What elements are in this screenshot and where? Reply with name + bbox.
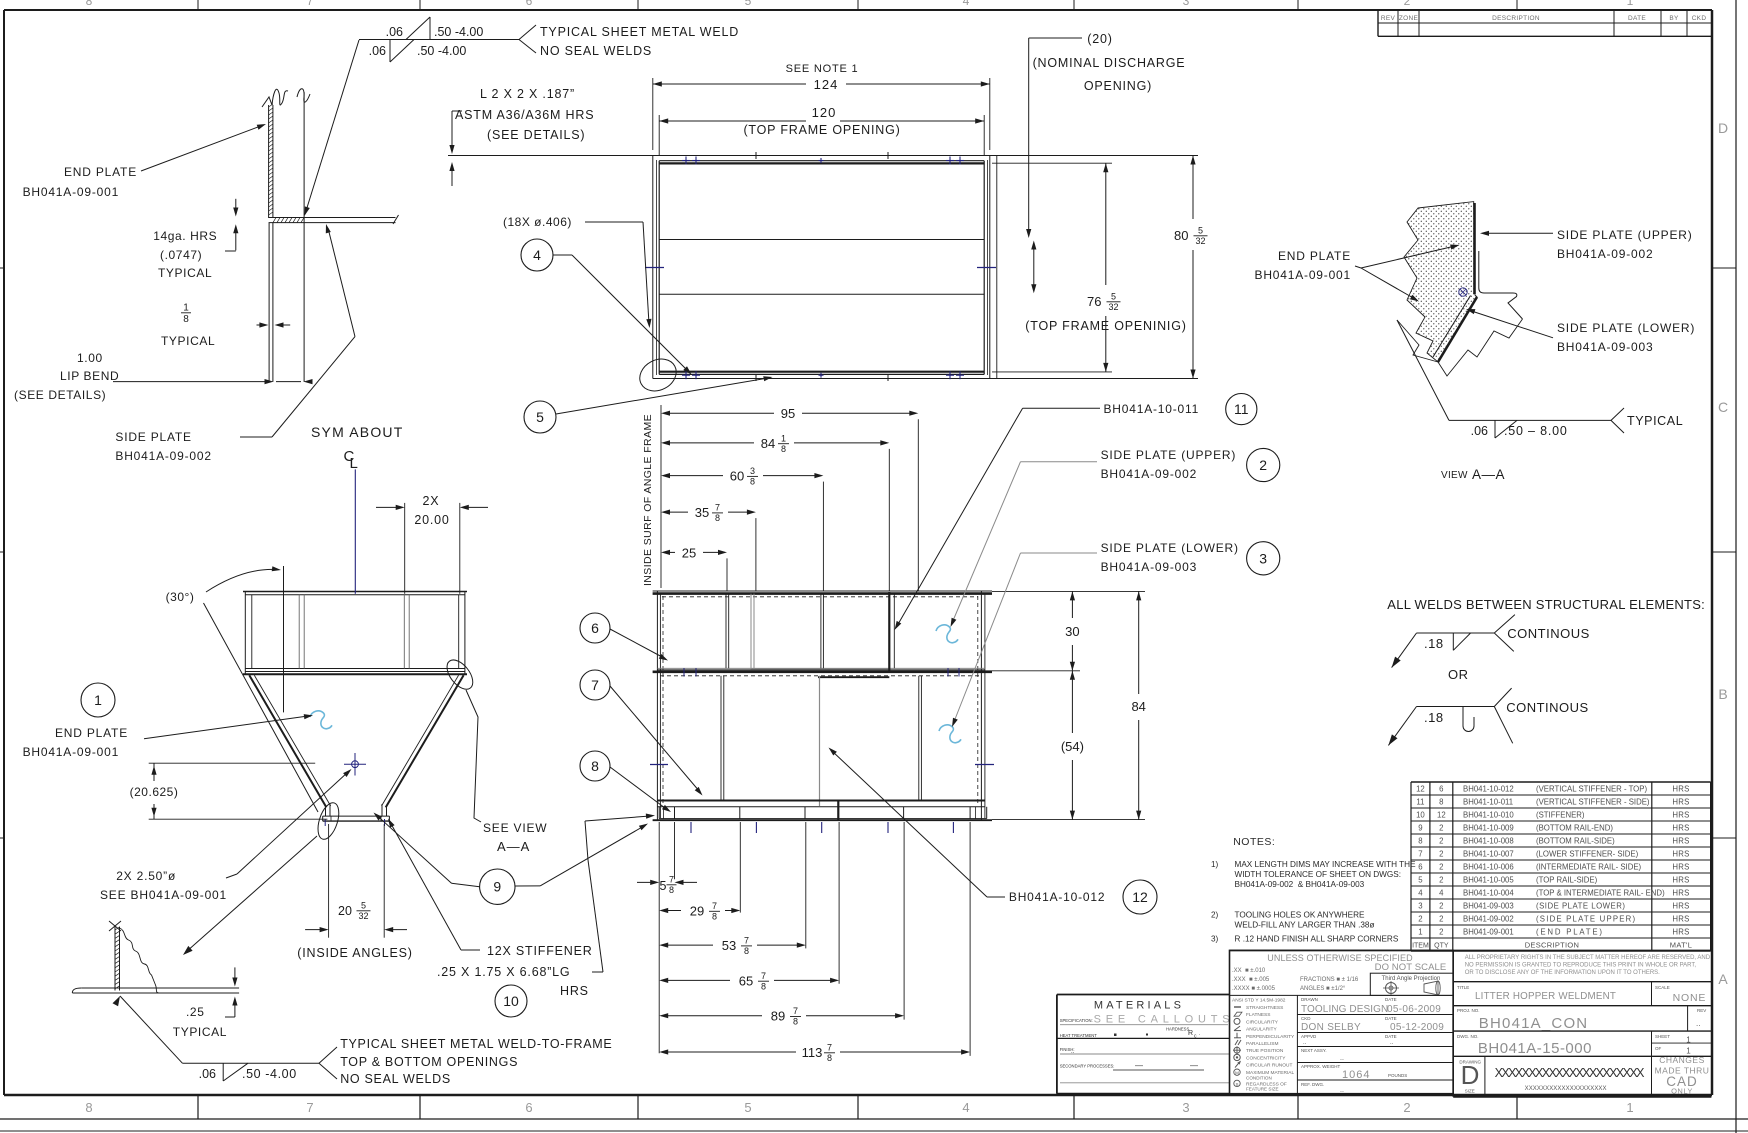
svg-text:ANGULARITY: ANGULARITY bbox=[1246, 1027, 1277, 1033]
svg-text:HARDNESS: HARDNESS bbox=[1166, 1027, 1189, 1032]
svg-text:CONCENTRICITY: CONCENTRICITY bbox=[1246, 1055, 1286, 1061]
svg-text:BH041-10-009: BH041-10-009 bbox=[1463, 824, 1514, 833]
svg-text:HRS: HRS bbox=[1672, 798, 1689, 807]
svg-text:TOOLING HOLES OK ANYWHERE: TOOLING HOLES OK ANYWHERE bbox=[1235, 911, 1366, 920]
svg-text:FEATURE SIZE: FEATURE SIZE bbox=[1246, 1087, 1279, 1092]
svg-text:8: 8 bbox=[1439, 798, 1443, 807]
svg-text:BH041A-10-012: BH041A-10-012 bbox=[1009, 890, 1105, 904]
svg-text:VIEW: VIEW bbox=[1441, 470, 1468, 481]
svg-text:M: M bbox=[1235, 1071, 1239, 1076]
svg-text:BH041-09-003: BH041-09-003 bbox=[1463, 902, 1514, 911]
svg-text:8: 8 bbox=[715, 513, 720, 523]
svg-text:FRACTIONS ■ ± 1/16: FRACTIONS ■ ± 1/16 bbox=[1300, 977, 1359, 983]
svg-text:(30°): (30°) bbox=[166, 590, 195, 604]
svg-text:BH041A-09-001: BH041A-09-001 bbox=[23, 745, 119, 759]
svg-text:5: 5 bbox=[1111, 292, 1116, 302]
svg-text:DON SELBY: DON SELBY bbox=[1301, 1022, 1361, 1033]
svg-text:L: L bbox=[350, 455, 358, 472]
svg-text:3: 3 bbox=[1259, 550, 1267, 566]
svg-text:1): 1) bbox=[1211, 860, 1219, 869]
svg-text:ANGLES ■ ±1/2°: ANGLES ■ ±1/2° bbox=[1300, 986, 1346, 992]
svg-text:8: 8 bbox=[827, 1053, 832, 1063]
svg-text:QTY: QTY bbox=[1434, 943, 1449, 950]
svg-text:..: .. bbox=[1340, 1087, 1344, 1094]
svg-text:5: 5 bbox=[744, 1100, 751, 1115]
svg-text:NEXT ASSY.: NEXT ASSY. bbox=[1301, 1048, 1327, 1053]
svg-text:BH041A-09-003: BH041A-09-003 bbox=[1557, 340, 1653, 354]
svg-text:84: 84 bbox=[761, 436, 775, 451]
svg-text:WIDTH TOLERANCE OF SHEET ON DW: WIDTH TOLERANCE OF SHEET ON DWGS: bbox=[1235, 870, 1402, 879]
svg-text:OPENING): OPENING) bbox=[1084, 79, 1152, 93]
svg-text:CIRCULAR RUNOUT: CIRCULAR RUNOUT bbox=[1246, 1063, 1292, 1069]
svg-text:(BOTTOM RAIL-SIDE): (BOTTOM RAIL-SIDE) bbox=[1536, 837, 1615, 846]
svg-text:(TOP FRAME OPENINIG): (TOP FRAME OPENINIG) bbox=[1025, 319, 1186, 333]
svg-text:HRS: HRS bbox=[560, 984, 589, 998]
svg-text:BH041A-09-002 & BH041A-09-003: BH041A-09-002 & BH041A-09-003 bbox=[1235, 880, 1365, 889]
svg-text:(TOP RAIL-SIDE): (TOP RAIL-SIDE) bbox=[1536, 876, 1598, 885]
svg-text:05-06-2009: 05-06-2009 bbox=[1387, 1004, 1441, 1015]
svg-text:..: .. bbox=[1303, 1040, 1307, 1046]
svg-text:DATE: DATE bbox=[1385, 1016, 1397, 1021]
svg-text:BH041A_CON: BH041A_CON bbox=[1479, 1015, 1589, 1032]
svg-text:TYPICAL: TYPICAL bbox=[161, 334, 215, 348]
svg-text:SIDE PLATE (LOWER): SIDE PLATE (LOWER) bbox=[1557, 321, 1695, 335]
svg-text:4: 4 bbox=[533, 247, 541, 263]
svg-text:5: 5 bbox=[361, 901, 366, 911]
svg-text:4: 4 bbox=[962, 1100, 969, 1115]
svg-text:DATE: DATE bbox=[1628, 15, 1646, 22]
svg-text:20.00: 20.00 bbox=[414, 513, 449, 527]
svg-text:7: 7 bbox=[761, 971, 766, 981]
svg-text:FLATNESS: FLATNESS bbox=[1246, 1012, 1270, 1018]
svg-text:8: 8 bbox=[761, 981, 766, 991]
svg-text:2: 2 bbox=[1418, 915, 1422, 924]
svg-text:2: 2 bbox=[1439, 928, 1443, 937]
svg-text:7: 7 bbox=[827, 1043, 832, 1053]
svg-text:CONTINOUS: CONTINOUS bbox=[1507, 626, 1590, 641]
svg-text:D: D bbox=[1461, 1060, 1480, 1090]
svg-text:8: 8 bbox=[669, 885, 674, 895]
svg-text:(54): (54) bbox=[1061, 739, 1084, 754]
svg-text:TITLE: TITLE bbox=[1457, 985, 1469, 990]
svg-text:ALL WELDS BETWEEN STRUCTURAL E: ALL WELDS BETWEEN STRUCTURAL ELEMENTS: bbox=[1387, 597, 1705, 612]
svg-text:STRAIGHTNESS: STRAIGHTNESS bbox=[1246, 1005, 1283, 1011]
svg-text:BH041A-09-002: BH041A-09-002 bbox=[1557, 247, 1653, 261]
svg-text:HRS: HRS bbox=[1672, 902, 1689, 911]
svg-text:5: 5 bbox=[1198, 226, 1203, 236]
svg-text:10: 10 bbox=[1416, 811, 1425, 820]
svg-text:SIZE: SIZE bbox=[1465, 1088, 1475, 1093]
svg-text:05-12-2009: 05-12-2009 bbox=[1390, 1022, 1444, 1033]
svg-text:(SIDE PLATE LOWER): (SIDE PLATE LOWER) bbox=[1536, 902, 1625, 911]
svg-text:SIDE PLATE (UPPER): SIDE PLATE (UPPER) bbox=[1557, 228, 1693, 242]
svg-text:S: S bbox=[1235, 1082, 1238, 1087]
svg-text:6: 6 bbox=[1418, 863, 1422, 872]
svg-text:35: 35 bbox=[695, 505, 709, 520]
svg-text:5: 5 bbox=[745, 0, 752, 8]
svg-text:(INSIDE ANGLES): (INSIDE ANGLES) bbox=[297, 946, 413, 960]
svg-text:1: 1 bbox=[1418, 928, 1422, 937]
svg-text:2: 2 bbox=[1403, 1100, 1410, 1115]
svg-text:DESCRIPTION: DESCRIPTION bbox=[1492, 15, 1540, 22]
svg-text:A—A: A—A bbox=[1472, 467, 1505, 482]
svg-text:Third Angle Projection: Third Angle Projection bbox=[1382, 976, 1441, 982]
svg-text:7: 7 bbox=[591, 677, 599, 693]
svg-text:89: 89 bbox=[771, 1009, 785, 1024]
svg-text:BH041-10-012: BH041-10-012 bbox=[1463, 785, 1514, 794]
svg-text:PERPENDICULARITY: PERPENDICULARITY bbox=[1246, 1034, 1295, 1040]
svg-text:53: 53 bbox=[722, 938, 736, 953]
svg-text:113: 113 bbox=[802, 1045, 823, 1060]
svg-text:BH041A-09-002: BH041A-09-002 bbox=[115, 449, 211, 463]
svg-text:.XXX ■ ±.005: .XXX ■ ±.005 bbox=[1232, 977, 1270, 983]
svg-text:.06: .06 bbox=[369, 44, 386, 58]
svg-text:A: A bbox=[1718, 971, 1728, 987]
svg-text:8: 8 bbox=[712, 912, 717, 922]
svg-text:.06: .06 bbox=[199, 1067, 216, 1081]
svg-text:PROJ. NO.: PROJ. NO. bbox=[1457, 1008, 1480, 1013]
svg-text:.: . bbox=[1199, 1031, 1200, 1037]
svg-text:INSIDE SURF OF ANGLE FRAME: INSIDE SURF OF ANGLE FRAME bbox=[642, 414, 654, 586]
svg-text:C: C bbox=[1718, 399, 1728, 415]
svg-text:12X STIFFENER: 12X STIFFENER bbox=[487, 944, 593, 958]
svg-text:OR: OR bbox=[1448, 667, 1469, 682]
svg-text:8: 8 bbox=[183, 314, 189, 325]
svg-text:TOOLING DESIGN: TOOLING DESIGN bbox=[1301, 1004, 1388, 1015]
svg-text:2: 2 bbox=[1439, 850, 1443, 859]
svg-text:(18X ø.406): (18X ø.406) bbox=[503, 215, 572, 229]
svg-text:BH041A-09-002: BH041A-09-002 bbox=[1101, 467, 1197, 481]
svg-text:SPECIFICATION:: SPECIFICATION: bbox=[1060, 1018, 1093, 1023]
svg-text:DWG. NO.: DWG. NO. bbox=[1457, 1034, 1479, 1039]
svg-text:11: 11 bbox=[1234, 401, 1249, 417]
svg-text:(NOMINAL DISCHARGE: (NOMINAL DISCHARGE bbox=[1033, 56, 1186, 70]
svg-text:SEE CALLOUTS: SEE CALLOUTS bbox=[1094, 1014, 1235, 1026]
svg-text:WELD-FILL ANY LARGER THAN .38ø: WELD-FILL ANY LARGER THAN .38ø bbox=[1235, 921, 1375, 930]
svg-text:(STIFFENER): (STIFFENER) bbox=[1536, 811, 1585, 820]
svg-text:124: 124 bbox=[814, 77, 839, 92]
svg-text:(20.625): (20.625) bbox=[130, 785, 179, 799]
svg-text:2: 2 bbox=[1404, 0, 1411, 8]
svg-text:4: 4 bbox=[963, 0, 970, 8]
svg-text:(BOTTOM RAIL-END): (BOTTOM RAIL-END) bbox=[1536, 824, 1613, 833]
svg-text:XXXXXXXXXXXXXXXXXXXX: XXXXXXXXXXXXXXXXXXXX bbox=[1525, 1086, 1607, 1092]
svg-text:BH041-10-011: BH041-10-011 bbox=[1463, 798, 1513, 807]
svg-text:TYPICAL: TYPICAL bbox=[173, 1025, 227, 1039]
svg-text:BH041-10-005: BH041-10-005 bbox=[1463, 876, 1514, 885]
svg-text:HRS: HRS bbox=[1672, 863, 1689, 872]
svg-text:1: 1 bbox=[1626, 1100, 1633, 1115]
svg-text:BH041A-10-011: BH041A-10-011 bbox=[1104, 402, 1200, 416]
svg-text:8: 8 bbox=[1418, 837, 1422, 846]
svg-text:20: 20 bbox=[338, 904, 352, 918]
svg-text:ALL PROPRIETARY RIGHTS IN THE: ALL PROPRIETARY RIGHTS IN THE SUBJECT MA… bbox=[1465, 955, 1711, 961]
svg-text:7: 7 bbox=[744, 936, 749, 946]
svg-text:4: 4 bbox=[1439, 889, 1444, 898]
svg-text:1: 1 bbox=[94, 692, 102, 708]
svg-text:ANSI STD Y 14.5M-1982: ANSI STD Y 14.5M-1982 bbox=[1232, 998, 1286, 1004]
svg-text:—: — bbox=[1190, 1061, 1198, 1070]
svg-text:.25: .25 bbox=[186, 1005, 204, 1019]
svg-text:HRS: HRS bbox=[1672, 928, 1689, 937]
svg-text:30: 30 bbox=[1065, 624, 1079, 639]
svg-text:TYPICAL SHEET METAL WELD-TO-FR: TYPICAL SHEET METAL WELD-TO-FRAME bbox=[340, 1037, 612, 1051]
svg-text:BH041-09-001: BH041-09-001 bbox=[1463, 928, 1514, 937]
svg-text:SYM ABOUT: SYM ABOUT bbox=[311, 424, 403, 440]
svg-text:..: .. bbox=[1696, 1019, 1700, 1028]
svg-text:8: 8 bbox=[744, 946, 749, 956]
svg-text:BH041A-09-003: BH041A-09-003 bbox=[1101, 560, 1197, 574]
svg-text:HRS: HRS bbox=[1672, 889, 1689, 898]
svg-text:6: 6 bbox=[525, 1100, 532, 1115]
svg-text:BH041A-15-000: BH041A-15-000 bbox=[1478, 1040, 1592, 1057]
svg-text:3: 3 bbox=[750, 466, 755, 476]
svg-text:NONE: NONE bbox=[1673, 992, 1707, 1004]
svg-text:1.00: 1.00 bbox=[77, 351, 103, 365]
svg-text:(TOP FRAME OPENING): (TOP FRAME OPENING) bbox=[743, 123, 900, 137]
svg-text:(SEE DETAILS): (SEE DETAILS) bbox=[14, 388, 106, 402]
svg-text:(VERTICAL STIFFENER - SIDE): (VERTICAL STIFFENER - SIDE) bbox=[1536, 798, 1650, 807]
svg-text:(SIDE PLATE UPPER): (SIDE PLATE UPPER) bbox=[1536, 915, 1636, 924]
svg-text:3: 3 bbox=[1182, 1100, 1189, 1115]
svg-text:ITEM: ITEM bbox=[1412, 943, 1429, 950]
svg-text:END PLATE: END PLATE bbox=[55, 726, 128, 740]
svg-text:A—A: A—A bbox=[497, 839, 530, 854]
svg-text:OF: OF bbox=[1655, 1046, 1662, 1051]
svg-text:32: 32 bbox=[358, 911, 368, 921]
svg-text:BH041-10-004: BH041-10-004 bbox=[1463, 889, 1514, 898]
svg-text:3: 3 bbox=[1183, 0, 1190, 8]
svg-text:REV: REV bbox=[1381, 15, 1396, 22]
svg-text:(LOWER STIFFENER- SIDE): (LOWER STIFFENER- SIDE) bbox=[1536, 850, 1639, 859]
svg-text:.50 – 8.00: .50 – 8.00 bbox=[1504, 424, 1568, 438]
svg-text:XXXXXXXXXXXXXXXXXXXXXX: XXXXXXXXXXXXXXXXXXXXXX bbox=[1495, 1066, 1645, 1080]
svg-text:8: 8 bbox=[750, 477, 755, 487]
svg-text:2: 2 bbox=[1439, 837, 1443, 846]
svg-text:3: 3 bbox=[1418, 902, 1422, 911]
svg-text:TRUE POSITION: TRUE POSITION bbox=[1246, 1048, 1284, 1054]
svg-text:CHANGES: CHANGES bbox=[1659, 1055, 1705, 1065]
svg-text:7: 7 bbox=[715, 503, 720, 513]
svg-text:4: 4 bbox=[1418, 889, 1423, 898]
svg-text:8: 8 bbox=[591, 758, 599, 774]
svg-text:NO SEAL WELDS: NO SEAL WELDS bbox=[540, 44, 652, 58]
svg-text:HRS: HRS bbox=[1672, 915, 1689, 924]
svg-text:ASTM A36/A36M HRS: ASTM A36/A36M HRS bbox=[455, 108, 594, 122]
svg-text:CIRCULARITY: CIRCULARITY bbox=[1246, 1019, 1279, 1025]
svg-text:HRS: HRS bbox=[1672, 785, 1689, 794]
svg-text:BH041A-09-001: BH041A-09-001 bbox=[1255, 268, 1351, 282]
svg-text:APPROX. WEIGHT: APPROX. WEIGHT bbox=[1301, 1064, 1341, 1069]
svg-text:6: 6 bbox=[591, 620, 599, 636]
svg-text:BH041A-09-001: BH041A-09-001 bbox=[23, 185, 119, 199]
svg-text:BH041-10-010: BH041-10-010 bbox=[1463, 811, 1514, 820]
svg-text:OR TO DISCLOSE ANY OF THE INFO: OR TO DISCLOSE ANY OF THE INFORMATION UP… bbox=[1465, 970, 1660, 976]
svg-text:TYPICAL: TYPICAL bbox=[1627, 414, 1683, 428]
svg-text:.18: .18 bbox=[1424, 636, 1444, 651]
svg-text:84: 84 bbox=[1131, 699, 1145, 714]
svg-text:2: 2 bbox=[1439, 824, 1443, 833]
svg-text:60: 60 bbox=[730, 469, 744, 484]
svg-text:.25 X 1.75 X 6.68”LG: .25 X 1.75 X 6.68”LG bbox=[437, 965, 570, 979]
svg-text:(20): (20) bbox=[1087, 32, 1112, 46]
svg-text:1: 1 bbox=[183, 303, 189, 314]
svg-text:PARALLELISM: PARALLELISM bbox=[1246, 1041, 1278, 1047]
svg-text:32: 32 bbox=[1108, 302, 1118, 312]
svg-text:TOP & BOTTOM OPENINGS: TOP & BOTTOM OPENINGS bbox=[340, 1055, 518, 1069]
svg-text:2X: 2X bbox=[423, 494, 440, 508]
svg-text:7: 7 bbox=[793, 1006, 798, 1016]
svg-text:29: 29 bbox=[690, 904, 704, 919]
svg-text:HEAT TREATMENT: HEAT TREATMENT bbox=[1060, 1033, 1098, 1038]
svg-text:7: 7 bbox=[306, 1100, 313, 1115]
svg-text:6: 6 bbox=[1439, 785, 1443, 794]
svg-text:10: 10 bbox=[503, 993, 519, 1009]
svg-text:7: 7 bbox=[712, 901, 717, 911]
svg-text:.XXXX ■ ±.0005: .XXXX ■ ±.0005 bbox=[1232, 986, 1276, 992]
svg-text:7: 7 bbox=[307, 0, 314, 8]
svg-text:MAT'L: MAT'L bbox=[1670, 941, 1692, 950]
svg-text:SIDE PLATE: SIDE PLATE bbox=[115, 430, 191, 444]
svg-text:HRS: HRS bbox=[1672, 876, 1689, 885]
svg-text:D: D bbox=[1718, 120, 1728, 136]
svg-text:2: 2 bbox=[1439, 876, 1443, 885]
svg-text:80: 80 bbox=[1174, 228, 1188, 243]
svg-text:BH041-10-008: BH041-10-008 bbox=[1463, 837, 1514, 846]
svg-text:DRAWN: DRAWN bbox=[1301, 997, 1318, 1002]
svg-text:11: 11 bbox=[1416, 798, 1424, 807]
svg-text:NO PERMISSION IS GRANTED TO RE: NO PERMISSION IS GRANTED TO REPRODUCE TH… bbox=[1465, 963, 1697, 969]
svg-text:BY: BY bbox=[1669, 15, 1679, 22]
svg-text:5: 5 bbox=[1418, 876, 1423, 885]
svg-text:.50 -4.00: .50 -4.00 bbox=[434, 25, 483, 39]
svg-text:REV: REV bbox=[1697, 1008, 1706, 1013]
svg-text:9: 9 bbox=[1418, 824, 1422, 833]
svg-text:12: 12 bbox=[1437, 811, 1446, 820]
svg-text:R .12 HAND FINISH ALL SHARP CO: R .12 HAND FINISH ALL SHARP CORNERS bbox=[1235, 935, 1399, 944]
svg-text:HRS: HRS bbox=[1672, 837, 1689, 846]
svg-text:1: 1 bbox=[781, 433, 786, 443]
svg-text:2X 2.50”ø: 2X 2.50”ø bbox=[116, 869, 176, 883]
svg-text:.18: .18 bbox=[1424, 710, 1444, 725]
svg-text:TYPICAL: TYPICAL bbox=[158, 266, 212, 280]
svg-text:ONLY: ONLY bbox=[1671, 1087, 1693, 1096]
svg-text:8: 8 bbox=[781, 444, 786, 454]
svg-text:25: 25 bbox=[682, 545, 696, 560]
svg-text:.50 -4.00: .50 -4.00 bbox=[417, 44, 466, 58]
svg-text:SCALE: SCALE bbox=[1655, 985, 1670, 990]
svg-text:SEE NOTE 1: SEE NOTE 1 bbox=[786, 63, 859, 75]
svg-text:B: B bbox=[1718, 686, 1727, 702]
svg-text:MATERIALS: MATERIALS bbox=[1094, 1000, 1184, 1012]
svg-text:SEE BH041A-09-001: SEE BH041A-09-001 bbox=[100, 888, 227, 902]
svg-text:.XX ■ ±.010: .XX ■ ±.010 bbox=[1232, 968, 1266, 974]
svg-text:7: 7 bbox=[1418, 850, 1422, 859]
svg-text:DO NOT SCALE: DO NOT SCALE bbox=[1375, 962, 1447, 973]
svg-text:END PLATE: END PLATE bbox=[1278, 249, 1351, 263]
svg-text:2: 2 bbox=[1259, 457, 1267, 473]
svg-text:SEE VIEW: SEE VIEW bbox=[483, 821, 547, 835]
svg-text:..: .. bbox=[1390, 1040, 1394, 1046]
svg-text:(INTERMEDIATE RAIL- SIDE): (INTERMEDIATE RAIL- SIDE) bbox=[1536, 863, 1642, 872]
svg-text:END PLATE: END PLATE bbox=[64, 165, 137, 179]
svg-text:120: 120 bbox=[812, 105, 837, 120]
svg-text:12: 12 bbox=[1416, 785, 1425, 794]
svg-text:9: 9 bbox=[493, 879, 501, 895]
svg-text:NOTES:: NOTES: bbox=[1233, 836, 1275, 848]
svg-text:8: 8 bbox=[793, 1017, 798, 1027]
svg-text:65: 65 bbox=[739, 973, 753, 988]
svg-text:CKD: CKD bbox=[1692, 15, 1707, 22]
svg-text:DESCRIPTION: DESCRIPTION bbox=[1525, 941, 1580, 950]
svg-text:CONDITION: CONDITION bbox=[1246, 1075, 1272, 1080]
svg-text:2: 2 bbox=[1439, 902, 1443, 911]
svg-text:HRS: HRS bbox=[1672, 811, 1689, 820]
svg-text:DATE: DATE bbox=[1385, 1034, 1397, 1039]
svg-text:HRS: HRS bbox=[1672, 824, 1689, 833]
svg-text:REF. DWG.: REF. DWG. bbox=[1301, 1082, 1324, 1087]
svg-text:1064: 1064 bbox=[1342, 1069, 1370, 1081]
svg-text:14ga. HRS: 14ga. HRS bbox=[153, 229, 217, 243]
svg-text:CKD: CKD bbox=[1301, 1016, 1311, 1021]
svg-text:APPVD: APPVD bbox=[1301, 1034, 1317, 1039]
svg-text:LITTER HOPPER WELDMENT: LITTER HOPPER WELDMENT bbox=[1475, 991, 1616, 1002]
svg-text:L 2 X 2 X .187”: L 2 X 2 X .187” bbox=[480, 87, 575, 101]
svg-text:12: 12 bbox=[1132, 889, 1148, 905]
svg-text:2: 2 bbox=[1439, 863, 1443, 872]
svg-text:5: 5 bbox=[660, 879, 667, 893]
svg-text:SECONDARY PROCESSES:: SECONDARY PROCESSES: bbox=[1060, 1064, 1115, 1069]
svg-text:LIP BEND: LIP BEND bbox=[60, 369, 119, 383]
svg-text:1: 1 bbox=[1627, 0, 1634, 8]
svg-text:3): 3) bbox=[1211, 935, 1219, 944]
svg-text:95: 95 bbox=[781, 406, 795, 421]
svg-text:(TOP & INTERMEDIATE RAIL- END): (TOP & INTERMEDIATE RAIL- END) bbox=[1536, 889, 1665, 898]
svg-text:2: 2 bbox=[1439, 915, 1443, 924]
svg-text:.06: .06 bbox=[1471, 424, 1488, 438]
svg-text:POUNDS: POUNDS bbox=[1388, 1073, 1407, 1078]
svg-text:DATE: DATE bbox=[1385, 997, 1397, 1002]
svg-text:(END PLATE): (END PLATE) bbox=[1536, 928, 1604, 937]
svg-text:TYPICAL SHEET METAL WELD: TYPICAL SHEET METAL WELD bbox=[540, 25, 739, 39]
svg-text:(.0747): (.0747) bbox=[160, 248, 202, 262]
svg-text:BH041-10-007: BH041-10-007 bbox=[1463, 850, 1514, 859]
svg-text:CONTINOUS: CONTINOUS bbox=[1506, 700, 1589, 715]
svg-text:—: — bbox=[1135, 1061, 1143, 1070]
svg-text:5: 5 bbox=[536, 409, 544, 425]
svg-text:HRS: HRS bbox=[1672, 850, 1689, 859]
svg-text:BH041-09-002: BH041-09-002 bbox=[1463, 915, 1514, 924]
svg-text:NO SEAL WELDS: NO SEAL WELDS bbox=[340, 1072, 451, 1086]
svg-text:BH041-10-006: BH041-10-006 bbox=[1463, 863, 1514, 872]
svg-text:.50 -4.00: .50 -4.00 bbox=[242, 1067, 297, 1081]
svg-text:SIDE PLATE (LOWER): SIDE PLATE (LOWER) bbox=[1101, 541, 1239, 555]
svg-text:7: 7 bbox=[669, 875, 674, 885]
svg-text:.06: .06 bbox=[386, 25, 403, 39]
svg-text:..: .. bbox=[1340, 1055, 1344, 1062]
svg-text:76: 76 bbox=[1087, 294, 1101, 309]
svg-text:2): 2) bbox=[1211, 911, 1219, 920]
svg-text:(VERTICAL STIFFENER - TOP): (VERTICAL STIFFENER - TOP) bbox=[1536, 785, 1647, 794]
svg-text:32: 32 bbox=[1195, 236, 1205, 246]
svg-text:MAX LENGTH DIMS MAY INCREASE W: MAX LENGTH DIMS MAY INCREASE WITH THE bbox=[1235, 860, 1417, 869]
svg-text:8: 8 bbox=[85, 1100, 92, 1115]
svg-text:(SEE DETAILS): (SEE DETAILS) bbox=[487, 128, 585, 142]
svg-text:ZONE: ZONE bbox=[1399, 15, 1419, 22]
svg-text:6: 6 bbox=[526, 0, 533, 8]
svg-text:R: R bbox=[1188, 1030, 1193, 1037]
svg-text:SIDE PLATE (UPPER): SIDE PLATE (UPPER) bbox=[1101, 448, 1237, 462]
